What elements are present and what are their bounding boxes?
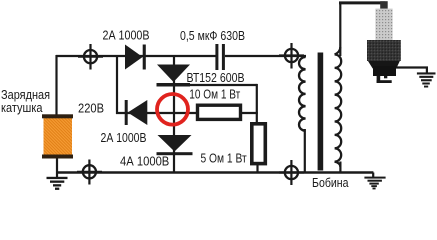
diode D1 2A 1000V [125, 45, 146, 70]
wire secondary top lead [339, 3, 341, 56]
svg-text:ВТ152 600В: ВТ152 600В [187, 71, 245, 85]
diode D2 2A 1000V (pointing left) [125, 100, 148, 125]
svg-text:катушка: катушка [1, 101, 43, 115]
wire gate loop vertical [256, 84, 258, 123]
spark plug electrodes [377, 76, 392, 83]
wire SCR column [173, 56, 175, 173]
transformer T1 primary winding [299, 57, 306, 131]
svg-text:4А 1000В: 4А 1000В [120, 155, 169, 169]
spark plug shell block [373, 66, 396, 76]
svg-text:Бобина: Бобина [312, 176, 349, 190]
annotation red circle at SCR cathode node [157, 94, 188, 125]
wire spark plug ground lead [395, 68, 427, 75]
resistor R2 5 Ohm 1W [252, 124, 265, 164]
wire R1 right lead [241, 112, 258, 114]
svg-text:5 Ом 1 Вт: 5 Ом 1 Вт [201, 152, 247, 166]
wire primary bottom lead [304, 129, 306, 173]
node connector BR [279, 160, 304, 185]
charging coil L1 (orange) [42, 114, 73, 158]
wire left vertical to charging coil [55, 55, 57, 115]
spark plug insulator [375, 9, 392, 40]
node connector TR [279, 43, 304, 69]
wire secondary top curve [335, 47, 341, 55]
svg-text:2А 1000В: 2А 1000В [101, 131, 147, 145]
wire branch vertical to D2 [116, 55, 118, 114]
svg-text:Зарядная: Зарядная [1, 88, 50, 102]
wire top bus from charging coil to transformer primary [56, 55, 306, 173]
wire [225, 55, 306, 57]
svg-text:2А 1000В: 2А 1000В [103, 29, 150, 43]
spark plug hex body [367, 40, 401, 61]
wire secondary bottom lead [339, 162, 341, 173]
wire secondary bottom curve [335, 162, 341, 167]
wire bottom-right stub to ground [372, 173, 374, 178]
ground G1 below charging coil [47, 177, 68, 190]
wire [56, 55, 216, 57]
ground G2 bottom right of transformer [364, 177, 385, 190]
svg-text:220В: 220В [78, 102, 104, 116]
svg-text:0,5 мкФ 630В: 0,5 мкФ 630В [180, 29, 245, 43]
wire charging coil bottom lead [56, 158, 58, 179]
transformer T1 secondary winding [335, 55, 342, 162]
wire HT lead to spark plug (thick) [339, 1, 385, 4]
wire R2 bottom lead [256, 164, 258, 173]
spark plug taper [368, 61, 400, 69]
resistor R1 10 Ohm 1W [198, 105, 241, 119]
wire middle row [116, 112, 197, 114]
spark plug terminal [380, 1, 388, 9]
svg-text:10 Ом 1 Вт: 10 Ом 1 Вт [189, 88, 240, 102]
wire gate loop horizontal [190, 84, 257, 86]
node connector TL [78, 44, 103, 70]
capacitor C1 0.5uF 630V [215, 44, 225, 70]
transformer T1 core [318, 53, 324, 171]
diode D3 4A 1000V (down) [157, 135, 193, 155]
node connector BL [77, 160, 102, 185]
ground G3 at spark plug [417, 72, 436, 87]
thyristor U1 BT152 600V (down) [157, 65, 191, 87]
